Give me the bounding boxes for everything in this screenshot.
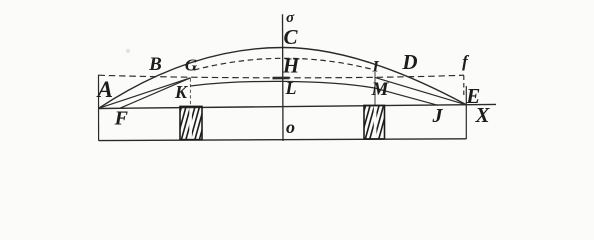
svg-text:σ: σ	[286, 10, 295, 26]
svg-text:X: X	[474, 103, 490, 127]
svg-text:L: L	[285, 78, 297, 98]
svg-text:I: I	[371, 59, 379, 76]
svg-text:K: K	[174, 82, 189, 102]
svg-text:J: J	[432, 105, 444, 127]
svg-text:M: M	[371, 79, 390, 100]
svg-text:F: F	[114, 107, 129, 129]
svg-text:D: D	[401, 50, 417, 74]
svg-text:f: f	[462, 52, 470, 71]
svg-text:C: C	[283, 25, 298, 49]
svg-text:o: o	[286, 117, 295, 137]
svg-text:G: G	[185, 56, 198, 75]
svg-text:B: B	[148, 54, 162, 75]
svg-text:H: H	[282, 54, 300, 78]
svg-text:A: A	[96, 77, 113, 102]
